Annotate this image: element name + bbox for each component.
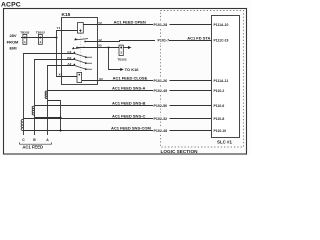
svg-text:LOGIC SECTION: LOGIC SECTION <box>161 149 199 154</box>
junction node bus to COM <box>60 130 62 132</box>
svg-text:P101-26: P101-26 <box>154 79 168 83</box>
wire phase C vertical <box>24 54 75 136</box>
box SLC #1 <box>212 16 240 138</box>
wire AC1 FEED SNS-B <box>35 105 212 107</box>
svg-text:AC1 FEED CLOSE: AC1 FEED CLOSE <box>113 75 148 80</box>
connector label P102-49 <box>153 87 170 93</box>
connector label P102-50 <box>153 102 170 108</box>
text 28V FROM EMI <box>7 33 19 50</box>
svg-text:28V: 28V <box>9 33 16 38</box>
terminal labels C B A <box>22 138 49 142</box>
wire AC1 FD STA (12 to SLC) <box>85 41 211 42</box>
svg-text:55: 55 <box>98 44 102 48</box>
svg-text:P111C-19: P111C-19 <box>214 39 229 43</box>
relay K15 box <box>62 18 98 85</box>
coil X (close coil) <box>77 73 82 83</box>
svg-text:AC1 FEED SNS-C: AC1 FEED SNS-C <box>112 113 145 118</box>
svg-text:ACPC: ACPC <box>1 1 21 8</box>
connector label P102-32 <box>153 115 170 121</box>
svg-text:X2: X2 <box>99 77 103 81</box>
svg-text:Y1: Y1 <box>57 26 61 30</box>
outer border frame <box>4 9 247 155</box>
wire CT-B return tap <box>35 117 61 119</box>
svg-text:P111A-11: P111A-11 <box>214 79 229 83</box>
connector label P101-28 <box>153 21 170 27</box>
wire 55 to TB102 arrow <box>77 47 119 49</box>
mechanical linkage dashed <box>79 34 81 73</box>
wire CT-A return tap to bus <box>48 101 61 131</box>
wire to coil Y1 <box>57 31 78 38</box>
bracket AC1 FEED <box>20 142 52 144</box>
junction node 55 branch <box>108 47 110 49</box>
terminal TB202 <box>20 31 29 45</box>
svg-text:12: 12 <box>98 38 102 42</box>
svg-text:X1: X1 <box>59 73 63 77</box>
wire phase B vertical <box>35 60 75 136</box>
svg-text:SLC #1: SLC #1 <box>217 140 232 145</box>
svg-text:Y2: Y2 <box>98 21 102 25</box>
contact 55 <box>72 47 85 50</box>
svg-text:P110-10: P110-10 <box>214 129 227 133</box>
terminal TB102 <box>36 31 45 45</box>
wire TO K16 <box>109 48 140 72</box>
contact C2 <box>67 50 92 58</box>
wire AC1 FEED SNS-COM <box>24 130 212 132</box>
coil Y (open coil) <box>78 23 84 34</box>
connector label P102-48 <box>153 127 170 133</box>
svg-text:P101-7: P101-7 <box>158 39 170 43</box>
svg-text:AC1 FEED SNS-A: AC1 FEED SNS-A <box>112 85 145 90</box>
connector label P101-26 <box>153 77 170 83</box>
svg-text:P110-8: P110-8 <box>214 117 225 121</box>
wire AC1 FEED CLOSE (X2 to SLC) <box>82 80 212 82</box>
CT coil C <box>21 119 23 130</box>
svg-text:K15: K15 <box>62 12 71 18</box>
dashed enclosure LOGIC SECTION <box>161 11 244 148</box>
svg-text:FROM: FROM <box>7 39 19 44</box>
svg-text:EMI: EMI <box>9 46 16 51</box>
svg-text:AC1 FEED: AC1 FEED <box>22 144 43 149</box>
wire AC1 FEED SNS-A <box>48 90 212 92</box>
svg-text:AC1 FEED SNS-B: AC1 FEED SNS-B <box>112 100 145 105</box>
svg-text:P101-28: P101-28 <box>154 23 168 27</box>
svg-text:AC1 FEED OPEN: AC1 FEED OPEN <box>114 19 146 24</box>
wire to coil X1 <box>57 38 78 77</box>
wire AC1 FEED SNS-C <box>24 118 212 120</box>
wire arrow out of TB102 <box>123 46 131 49</box>
svg-text:P102-50: P102-50 <box>154 104 168 108</box>
svg-text:P102-48: P102-48 <box>154 129 168 133</box>
svg-text:TB102: TB102 <box>36 31 45 35</box>
CT coil B <box>32 106 34 115</box>
terminal TB102 (status) <box>118 45 127 61</box>
svg-text:P111A-10: P111A-10 <box>214 23 229 27</box>
svg-text:TB202: TB202 <box>20 31 29 35</box>
svg-text:TO K16: TO K16 <box>125 67 140 72</box>
wire AC1 FEED OPEN (Y2 to SLC) <box>83 24 211 26</box>
wire phase A vertical <box>48 66 75 136</box>
connector label P101-7 <box>155 37 169 43</box>
wire 28V feed bus <box>21 37 57 39</box>
svg-text:P110-2: P110-2 <box>214 89 225 93</box>
svg-text:P110-6: P110-6 <box>214 104 225 108</box>
contact B2 <box>67 56 92 64</box>
junction node 28V split <box>56 37 58 39</box>
svg-text:AC1 FD STA: AC1 FD STA <box>187 36 210 41</box>
svg-text:P102-32: P102-32 <box>154 117 168 121</box>
svg-text:TB102: TB102 <box>118 57 127 61</box>
svg-text:P102-49: P102-49 <box>154 89 168 93</box>
contact armature 12 <box>74 38 88 42</box>
junction node CT-B to bus <box>60 117 62 119</box>
CT coil A <box>45 91 47 99</box>
svg-text:AC1 FEED SNS-COM: AC1 FEED SNS-COM <box>111 125 151 130</box>
contact A2 <box>67 62 92 70</box>
